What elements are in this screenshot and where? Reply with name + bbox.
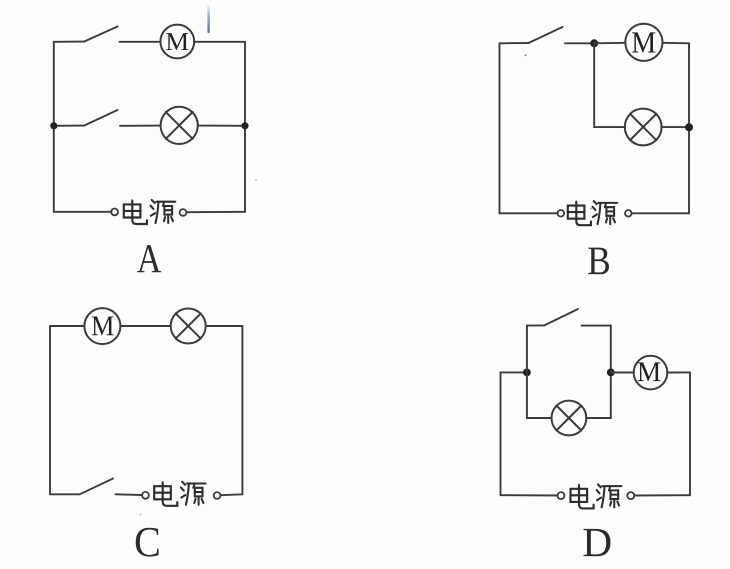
wire D left stub to node <box>501 371 527 373</box>
node B-left junction <box>590 39 598 47</box>
wire B to lamp <box>594 126 625 128</box>
lamp L2 (B) <box>625 109 662 146</box>
label C <box>136 528 159 557</box>
wire C left vertical <box>49 326 51 494</box>
battery terminal C-right <box>214 492 221 499</box>
wire B bottom left <box>500 212 558 214</box>
wire C switch to terminal <box>116 493 143 496</box>
wire A right vertical <box>244 42 246 212</box>
label 电源 (D power source) <box>571 484 622 508</box>
battery terminal A-right <box>180 209 187 216</box>
motor M (D) <box>634 356 668 390</box>
wire D switch branch up <box>526 326 528 373</box>
wire D left vertical <box>500 372 502 495</box>
wire C between motor and lamp <box>120 325 170 327</box>
wire D lamp to right <box>586 417 611 419</box>
label A <box>137 245 161 272</box>
switch S5 (D) <box>527 324 544 326</box>
wire C top left <box>50 325 84 327</box>
label B <box>588 248 609 275</box>
label D <box>584 529 611 556</box>
wire D switch to right <box>582 325 611 327</box>
wire B left vertical <box>499 43 501 213</box>
node A-right junction <box>241 122 248 129</box>
wire D bottom right <box>634 494 690 496</box>
wire A lamp to right <box>198 125 245 127</box>
battery terminal D-right <box>627 492 634 499</box>
motor M (C) <box>84 308 120 344</box>
label 电源 (A power source) <box>124 200 176 224</box>
wire A left vertical <box>53 42 55 212</box>
wire D right vertical <box>689 372 691 495</box>
lamp L1 (A) <box>161 107 198 144</box>
wire B motor to right corner <box>663 42 690 45</box>
wire B switch to node <box>565 42 594 44</box>
wire D lamp branch down <box>526 372 528 418</box>
wire D node to motor <box>611 371 634 373</box>
motor M (B) <box>625 24 662 61</box>
wire D lamp branch up <box>610 372 612 418</box>
wire C bottom right <box>221 493 243 496</box>
speck under B switch <box>525 54 527 56</box>
blue pen mark artifact <box>207 6 209 32</box>
wire A middle to lamp <box>120 125 161 127</box>
wire C lamp to right corner <box>206 325 243 327</box>
battery terminal D-left <box>558 492 565 499</box>
wire B bottom right <box>632 212 689 214</box>
wire D motor to right corner <box>667 371 690 373</box>
wire D bottom left <box>501 494 558 496</box>
wire C right vertical <box>241 326 243 494</box>
wire A bottom left <box>54 211 111 213</box>
battery terminal C-left <box>142 492 149 499</box>
wire D switch branch down <box>610 326 612 373</box>
node B-right junction <box>685 123 693 131</box>
switch S1 (A top branch) <box>54 41 84 43</box>
speck right of A right wire <box>255 179 257 181</box>
switch S2 (A middle branch) <box>54 125 84 127</box>
battery terminal A-left <box>111 209 118 216</box>
wire B right vertical <box>688 43 690 213</box>
lamp L3 (C) <box>171 309 206 344</box>
wire A motor to right corner <box>194 41 245 43</box>
node A-left junction <box>50 122 57 129</box>
motor M (A) <box>160 25 194 59</box>
speck below C left terminal <box>139 513 141 515</box>
battery terminal B-right <box>625 210 632 217</box>
wire B lamp branch left vertical <box>593 43 595 127</box>
wire B lamp to right <box>662 126 689 128</box>
switch S4 (C bottom) <box>50 493 80 495</box>
label 电源 (B power source) <box>568 201 618 225</box>
label 电源 (C power source) <box>154 482 206 506</box>
lamp L4 (D) <box>552 401 587 436</box>
wire A bottom right <box>187 211 246 213</box>
switch S3 (B) <box>500 42 529 44</box>
wire D to lamp <box>527 417 552 419</box>
wire A top to motor <box>120 41 161 43</box>
node D-left junction <box>523 369 531 377</box>
speck between B dian and yuan <box>590 208 592 210</box>
node D-right junction <box>607 369 615 377</box>
battery terminal B-left <box>558 210 565 217</box>
wire B node to motor <box>594 42 625 45</box>
